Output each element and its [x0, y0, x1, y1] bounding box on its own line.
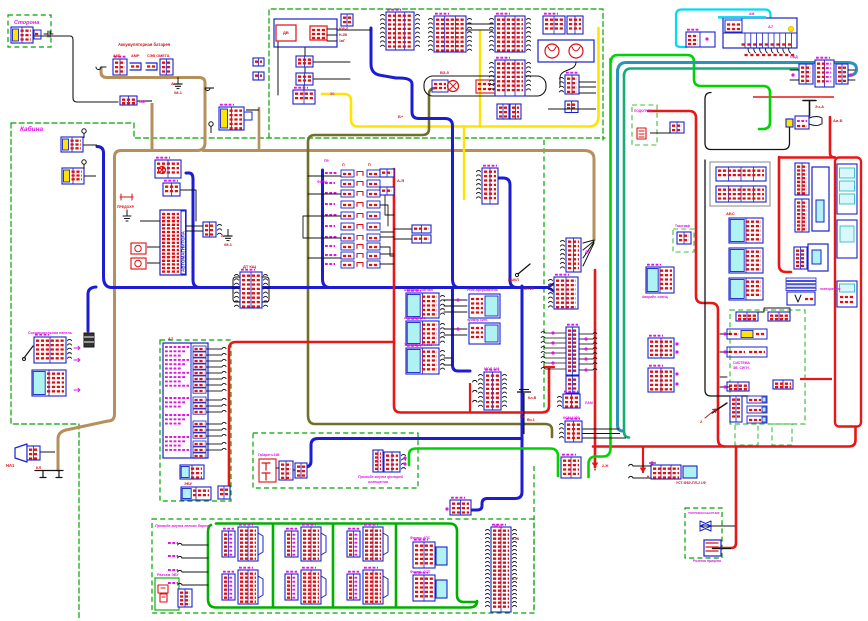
svg-text:Аи-Б: Аи-Б: [833, 118, 843, 123]
power tap symbol: [803, 101, 816, 117]
valve row 2: [747, 406, 767, 413]
wire black hazard links: [444, 300, 467, 365]
svg-text:Сторона: Сторона: [14, 20, 39, 26]
horn sys conn b: [768, 312, 790, 321]
wire black dt bundle left: [233, 277, 240, 302]
ignition lock connector: [120, 96, 137, 105]
left front marker lamp: [238, 525, 258, 561]
svg-text:ПРЕДОХР.: ПРЕДОХР.: [117, 205, 135, 209]
wire red feed right side: [648, 111, 725, 447]
left rear marker lamp lens: [258, 576, 263, 598]
wire blue rear harness: [299, 439, 521, 468]
wire black instrument loop: [705, 160, 748, 396]
mid marker b connector: [285, 572, 298, 600]
wire black ust links: [633, 466, 651, 478]
connector K6: [565, 101, 578, 113]
wire blue branch to suppressor: [88, 287, 96, 331]
connector small b: [253, 72, 264, 80]
ABS harness connector: [566, 325, 579, 375]
arrow marks: [74, 346, 80, 350]
svg-text:П: П: [368, 163, 371, 167]
svg-text:ФАРЫ: ФАРЫ: [317, 180, 327, 184]
fuel sender symbol: [700, 521, 711, 531]
ignition switch group: [424, 76, 546, 96]
wire black underhood link: [246, 109, 259, 111]
svg-text:ОБД: ОБД: [790, 55, 798, 59]
wire black panel links: [304, 30, 371, 90]
svg-text:А7: А7: [168, 336, 174, 341]
valve row 3: [747, 416, 767, 423]
wire black fuse panel to red bus 3: [380, 231, 394, 233]
svg-text:Вч-1: Вч-1: [527, 418, 535, 422]
wire red bottom bus: [593, 427, 856, 447]
svg-text:Габаритн.24В: Габаритн.24В: [258, 453, 280, 457]
headlamp left lower: [62, 168, 84, 184]
region sub-box a (dashed): [735, 424, 758, 445]
mid marker a lamp lens: [321, 533, 326, 555]
trailer socket: [704, 540, 721, 556]
svg-text:Провода жгута фонарей: Провода жгута фонарей: [358, 475, 404, 479]
speedometer unit: [812, 167, 829, 231]
svg-text:НА1: НА1: [6, 463, 15, 468]
wire black connector to brown junction: [136, 100, 152, 102]
mid marker b lamp: [301, 568, 321, 604]
connector right of panel b: [380, 187, 394, 195]
svg-text:▼: ▼: [593, 467, 597, 472]
license lamp connector b: [295, 463, 307, 478]
wire black K5 out 3: [579, 92, 596, 94]
region top-center harness box (dashed): [269, 9, 603, 140]
modulator MOD-228: [479, 370, 507, 410]
wire black dash stub: [649, 462, 656, 464]
instrument relay row 2: [716, 186, 766, 202]
wire green frame top bus: [216, 524, 477, 603]
connector Sh: [293, 88, 315, 104]
svg-text:зуммер сигн.: зуммер сигн.: [467, 318, 488, 322]
wire blue long vertical to trailer plug: [471, 286, 522, 510]
svg-text:Так дальние саб: Так дальние саб: [404, 343, 433, 347]
heater element: [637, 128, 646, 139]
wire red cluster feed: [830, 117, 835, 158]
connector Ts1: [296, 56, 313, 67]
instrument relay frame: [710, 162, 770, 206]
wire black speaker link 1: [147, 246, 160, 248]
left rear lamp harness: [486, 525, 517, 612]
wire red branch arrow: [642, 447, 644, 473]
wire black license-blue link: [296, 466, 300, 468]
svg-text:Розетка прицепа: Розетка прицепа: [693, 559, 721, 563]
wire black horn drop: [560, 62, 576, 86]
antenna connector VCh: [163, 181, 180, 196]
foot switch: [712, 403, 727, 413]
capacitor symbol: [44, 31, 53, 37]
left front marker connector: [222, 529, 235, 557]
left front marker lamp lens: [258, 533, 263, 555]
cluster connector Sh2: [795, 199, 809, 232]
horn cell row 1: [727, 329, 767, 339]
svg-text:Аккумуляторная батарея: Аккумуляторная батарея: [118, 42, 171, 47]
svg-text:2-У: 2-У: [512, 576, 519, 581]
dash unit 3: [729, 278, 763, 300]
speaker left 2: [131, 258, 146, 269]
connector small a: [253, 58, 264, 66]
wire red top link: [779, 156, 836, 159]
svg-text:Зч-А: Зч-А: [815, 104, 824, 109]
mid marker a lamp: [301, 525, 321, 561]
svg-text:ТОПЛИВОЗАБОРНИК: ТОПЛИВОЗАБОРНИК: [688, 511, 720, 515]
wire red supply thin: [753, 96, 834, 98]
wire black trumpet link: [758, 308, 790, 312]
svg-text:А7: А7: [768, 24, 774, 29]
junction panel lower: [32, 370, 66, 396]
region heater box (dashed): [632, 105, 657, 145]
region ECU plug box: [155, 578, 179, 610]
reverse lamp b: [510, 104, 521, 119]
car radio unit A3: [160, 210, 186, 275]
wire black speedo link 3: [582, 433, 620, 435]
svg-text:Н-2В: Н-2В: [339, 33, 347, 37]
svg-text:Л: Л: [342, 163, 345, 167]
relay K2: [490, 14, 531, 52]
mid marker c connector: [347, 529, 360, 557]
relay GAV: [490, 58, 531, 96]
wire brown battery loop and left trunk: [58, 68, 205, 470]
region mid dashed vertical: [543, 140, 545, 412]
region horn-system box (dashed): [730, 310, 805, 424]
svg-text:А-Образные: А-Образные: [404, 316, 426, 320]
wire cyan overlay: [718, 16, 766, 18]
wire blue fork: [548, 284, 554, 292]
wire black K5 out 2: [579, 86, 596, 88]
wire cyan stub: [676, 43, 686, 47]
instrument relay row 1: [716, 167, 766, 181]
svg-text:КЛ: КЛ: [36, 465, 41, 470]
mid marker d lamp: [363, 568, 383, 604]
horn HA1: [15, 444, 27, 462]
wire seagreen long vertical: [624, 74, 629, 438]
svg-text:ЭБУ: ЭБУ: [184, 481, 193, 486]
svg-text:/M-1: /M-1: [174, 90, 183, 95]
dash unit 2: [729, 248, 763, 273]
mid marker d connector: [347, 572, 360, 600]
wire blue radio drop: [186, 173, 200, 288]
tachograph unit: [808, 244, 828, 271]
wire green frame link 2: [332, 524, 335, 607]
wire black abs right fan: [579, 333, 597, 372]
fuse panel left stubs: [303, 176, 341, 258]
hazard switch: [406, 291, 445, 318]
rear signal connector: [561, 455, 581, 478]
svg-text:Реле-прерыватель: Реле-прерыватель: [467, 288, 498, 292]
region ECU box (dashed): [160, 340, 231, 501]
wire black K5 out 1: [579, 81, 596, 83]
sensor pair b: [648, 366, 674, 392]
svg-text:Тахограф: Тахограф: [675, 224, 690, 228]
red tap bar: [544, 366, 554, 368]
horn pair: [538, 40, 594, 62]
relay block T1: [381, 10, 420, 50]
region sub-box b (dashed): [772, 424, 792, 445]
battery connector left: [113, 57, 127, 75]
svg-text:Кабина: Кабина: [20, 125, 44, 133]
fuse block PR2: [567, 16, 583, 34]
tachometer gauge: [837, 220, 857, 258]
ground antenna base: [123, 210, 131, 221]
wire black fuse panel to red bus 1: [380, 175, 394, 177]
terminal post lower: [82, 160, 86, 164]
wire red instrument link: [800, 378, 832, 380]
svg-text:освещения: освещения: [368, 480, 389, 484]
mid marker a connector: [285, 529, 298, 557]
left rear marker lamp: [238, 568, 258, 604]
wire yellow branch to lamp connector: [463, 127, 465, 200]
svg-text:АМ: АМ: [139, 99, 146, 104]
svg-text:Соединительная панель: Соединительная панель: [28, 331, 73, 335]
svg-text:ВЫКЛ: ВЫКЛ: [508, 278, 519, 282]
connector Ts2: [296, 73, 313, 85]
wire black battery stub: [205, 87, 214, 89]
battery connector right: [160, 59, 173, 75]
wire black diag stubs: [790, 70, 855, 80]
wire black speaker link 2: [147, 262, 160, 264]
svg-text:ВЗ-5: ВЗ-5: [440, 70, 450, 75]
wire brown bus to right: [203, 151, 594, 241]
wire green rear lamp bus: [409, 449, 558, 477]
wire black radio aux 2: [186, 230, 203, 232]
red branch hooks: [473, 380, 477, 402]
switch lever: [24, 346, 33, 358]
svg-text:ЗВ. СИГН.: ЗВ. СИГН.: [733, 366, 750, 370]
connector PD: [549, 275, 579, 309]
gauge connector: [837, 281, 857, 307]
svg-text:МОД: МОД: [494, 524, 503, 528]
wire black fuse panel to red bus 2: [380, 191, 394, 193]
rear connector bundle: [561, 238, 582, 272]
wire black power jogs: [809, 117, 822, 126]
region box Storona (dashed): [8, 15, 51, 47]
wire blue headlight to bus: [97, 147, 548, 288]
suspension sensor link: [35, 471, 63, 478]
svg-text:1мГ: 1мГ: [339, 39, 345, 43]
speaker left 1: [131, 243, 146, 254]
svg-text:МОД 228: МОД 228: [484, 367, 499, 371]
wire yellow main loop: [322, 28, 599, 127]
connector right of panel a: [380, 169, 394, 177]
svg-text:▼: ▼: [646, 474, 650, 479]
interior lamp panel: [274, 19, 337, 47]
relay block RK: [155, 158, 181, 178]
mid marker c lamp: [363, 525, 383, 561]
wire green long vertical: [589, 59, 611, 477]
svg-text:2-Ж: 2-Ж: [512, 536, 520, 541]
svg-text:УСТ-ФБУ-ПЛ-2.1Ф: УСТ-ФБУ-ПЛ-2.1Ф: [676, 481, 706, 485]
svg-text:ДТ: ДТ: [585, 250, 591, 254]
reverse lamp a: [497, 104, 509, 119]
wire green frame link 1: [272, 524, 275, 607]
ground radio: [221, 229, 233, 247]
wire black horn row stubs: [720, 334, 730, 387]
relay K1: [429, 14, 472, 52]
horn connector: [27, 446, 40, 460]
wire black horn lead: [40, 451, 55, 453]
wire black license links: [276, 468, 295, 470]
wire black breaker links: [394, 229, 412, 239]
license lamp unit: [259, 459, 276, 482]
svg-text:2-Ж: 2-Ж: [602, 464, 609, 468]
flasher relay: [469, 294, 500, 318]
svg-text:ЛАМ: ЛАМ: [585, 401, 593, 405]
reverse lamp harness a: [373, 450, 383, 472]
headlamp left upper: [61, 137, 83, 152]
fuse panel right links: [380, 174, 394, 264]
tachograph sensor: [677, 232, 691, 244]
region lighting harness box (dashed): [253, 433, 418, 488]
svg-text:Фонарь АПС: Фонарь АПС: [410, 536, 431, 540]
reverse lamp harness b: [384, 452, 406, 472]
diagnostics connector X3: [815, 58, 834, 87]
horn cell row 2: [727, 347, 767, 357]
left rear marker connector: [222, 572, 235, 600]
wire red horn feed: [779, 157, 791, 272]
right cluster b lens: [436, 580, 447, 598]
wire black abs left fan: [541, 331, 566, 369]
right cluster a: [413, 540, 435, 568]
svg-text:А-Я: А-Я: [397, 178, 404, 183]
svg-text:Разъем ЭБУ: Разъем ЭБУ: [157, 573, 179, 577]
svg-text:АМР: АМР: [131, 54, 140, 58]
svg-text:ПР: ПР: [324, 159, 330, 163]
svg-text:АВТОМАГНИТОЛА: АВТОМАГНИТОЛА: [181, 230, 186, 272]
wire black K6 run: [548, 108, 596, 110]
svg-text:Аварийн. освещ.: Аварийн. освещ.: [642, 295, 669, 299]
connector spare lamp X1: [11, 27, 33, 43]
svg-text:30: 30: [330, 91, 335, 96]
svg-text:/M-1: /M-1: [224, 242, 233, 247]
connector top small: [341, 14, 353, 26]
wire red battery feed vertical: [594, 270, 597, 467]
svg-text:Провода жгута левого борта: Провода жгута левого борта: [155, 524, 210, 528]
svg-text:ПОДОГРЕВ: ПОДОГРЕВ: [634, 109, 653, 113]
arrowheads red: [641, 468, 646, 472]
power junction block: [786, 116, 809, 129]
horn sys conn d: [773, 380, 793, 389]
svg-text:Кл: Кл: [520, 415, 525, 419]
svg-text:Б+: Б+: [398, 114, 404, 119]
connector fan wires: [748, 48, 750, 53]
junction panel upper: [34, 335, 72, 363]
wire black headlight stub 1: [83, 144, 97, 146]
ecu lower connector a: [180, 465, 204, 479]
region tachograph box (dashed): [673, 229, 694, 252]
connector FSK: [450, 498, 471, 515]
radio fuse: [120, 194, 133, 200]
svg-text:Аварийн. сигнал: Аварийн. сигнал: [404, 288, 433, 292]
wire teal long vertical: [618, 70, 624, 431]
valve stack: [730, 396, 742, 422]
tachometer unit: [646, 265, 674, 293]
diagnostic plug symbols: [158, 585, 168, 602]
wire black K1-K2 links: [466, 24, 493, 30]
wire black kl15 switch: [518, 264, 530, 274]
wire black fuse panel to red bus 4: [380, 253, 394, 255]
wire red branch to cab left: [229, 342, 394, 497]
wire cyan second run: [718, 16, 766, 18]
breaker connector a: [412, 225, 431, 233]
wire black radio link: [140, 220, 160, 222]
engine control unit A7: [163, 343, 208, 458]
diagnostics connector X2: [799, 64, 813, 84]
speed sensor KSM-1200: [560, 419, 583, 442]
svg-text:СЭВ ОМЕГА: СЭВ ОМЕГА: [147, 54, 170, 58]
wire black from spare-wheel lamp: [33, 36, 118, 102]
wire black fan from brown end: [583, 240, 594, 266]
wire brown underhood lamp drop: [258, 108, 261, 148]
rear device connector: [651, 465, 681, 479]
wire green top run to connector: [611, 55, 770, 129]
wire green frame link 3: [395, 524, 398, 607]
svg-text:ДВ: ДВ: [283, 30, 289, 35]
diagnostic connector: [178, 589, 192, 607]
red-end connector: [218, 486, 230, 499]
svg-text:Кл-15: Кл-15: [524, 287, 534, 291]
svg-text:A: A: [171, 81, 174, 86]
wire blue fuse-panel drop: [323, 170, 331, 288]
wire black dt bundle right: [262, 277, 269, 302]
heater relay: [670, 122, 684, 133]
ecu output wires: [206, 348, 222, 350]
fuse block PR: [543, 14, 565, 34]
indicator lamp: [788, 26, 793, 31]
mid marker d lamp lens: [383, 576, 388, 598]
svg-text:АКБ: АКБ: [113, 54, 121, 58]
buzzer unit: [469, 323, 500, 344]
wire black speedo link 1: [582, 428, 619, 430]
wiper switch: [406, 346, 445, 374]
central fuse panel: [325, 170, 380, 268]
instrument cluster red frame: [835, 158, 861, 427]
wire black fuel sender: [701, 525, 735, 527]
wire seagreen top run: [624, 69, 797, 77]
tachograph connector: [794, 247, 807, 269]
wire red stub up: [469, 383, 471, 412]
breaker connector b: [412, 235, 431, 243]
lamp symbol in RK: [159, 167, 166, 174]
wire olive ignition feed: [308, 88, 552, 437]
svg-text:АБС: АБС: [726, 211, 735, 216]
wire blue lamp-connector drop: [499, 178, 517, 288]
license lamp connector a: [279, 461, 293, 480]
fuse link F1: [130, 63, 141, 70]
svg-text:повторители: повторители: [820, 287, 841, 291]
ABS unit: [729, 218, 763, 243]
underhood lamp: [219, 105, 244, 130]
svg-text:АМ: АМ: [749, 12, 754, 16]
region Kabina boundary (dashed): [11, 123, 605, 138]
ABS lower connector: [566, 376, 579, 393]
wire blue continue to flasher: [453, 288, 471, 372]
modulator MOD-250: [558, 392, 581, 408]
fuse labels: [745, 54, 749, 56]
ecu lower connector b: [181, 487, 211, 500]
horn sys conn c: [727, 382, 749, 391]
battery loop hooks: [96, 67, 210, 91]
right cluster b: [413, 573, 435, 601]
sensor connector DT: [235, 270, 268, 308]
radio aux connector: [203, 222, 222, 237]
horn sys conn a: [736, 312, 758, 321]
cluster connector Sh1: [795, 163, 809, 195]
svg-text:Фонарь ОСП: Фонарь ОСП: [410, 570, 431, 574]
